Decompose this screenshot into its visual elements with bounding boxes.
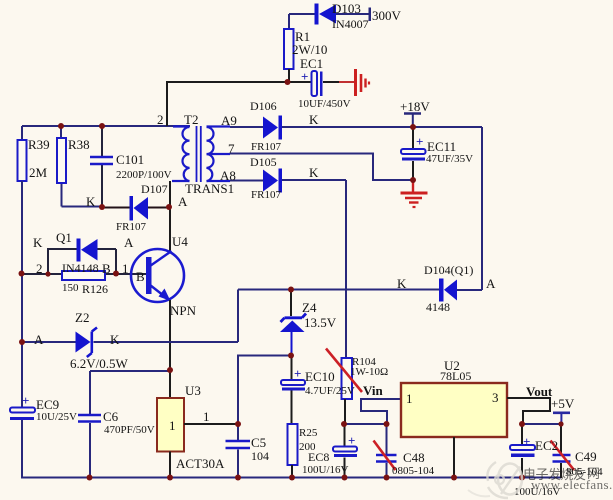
- svg-text:C49: C49: [575, 449, 597, 464]
- svg-text:K: K: [309, 112, 319, 127]
- resistor R39: [18, 140, 27, 181]
- svg-text:D105: D105: [250, 155, 277, 169]
- svg-text:+: +: [348, 433, 355, 448]
- svg-text:Vout: Vout: [526, 384, 553, 399]
- capacitor C101: [90, 157, 113, 164]
- svg-text:D107: D107: [141, 182, 168, 196]
- svg-text:300V: 300V: [372, 8, 402, 23]
- svg-text:EC8: EC8: [308, 450, 329, 464]
- wire left vertical lower: [21, 420, 23, 478]
- power +5V bar: [553, 413, 570, 424]
- wire U2 bottom pin: [453, 437, 455, 478]
- svg-text:13.5V: 13.5V: [304, 315, 337, 330]
- svg-text:R38: R38: [68, 137, 90, 152]
- svg-text:NPN: NPN: [170, 303, 197, 318]
- diode Q1 (IN4148): [77, 239, 98, 262]
- svg-text:1: 1: [122, 261, 129, 276]
- wire R104 bottom chain EC8: [344, 399, 347, 478]
- power 300V bar: [369, 8, 372, 22]
- wire U3 right pin: [184, 423, 238, 425]
- wire center tap: [230, 154, 413, 181]
- transistor U4 base bar: [146, 257, 152, 294]
- power +18V bar: [404, 114, 421, 128]
- transformer T2 core: [197, 126, 201, 182]
- resistor R38: [57, 138, 66, 183]
- capacitor EC2: [510, 434, 535, 457]
- svg-text:FR107: FR107: [251, 189, 281, 201]
- wire right-edge vertical: [481, 127, 483, 290]
- wire D107 row: [102, 207, 170, 209]
- wire Z2K up x238: [237, 290, 239, 343]
- svg-text:+: +: [22, 393, 29, 408]
- svg-text:1: 1: [406, 391, 413, 406]
- transistor U4 collector: [150, 251, 172, 266]
- wire y424 right link: [523, 423, 561, 425]
- svg-text:FR107: FR107: [251, 141, 281, 153]
- svg-text:+: +: [523, 434, 530, 449]
- diode D104: [439, 279, 457, 302]
- resistor R104: [342, 358, 353, 399]
- diode D103: [315, 4, 337, 25]
- capacitor EC10: [281, 366, 305, 391]
- wire C101 branch: [101, 126, 103, 208]
- wire C5 stubs: [237, 424, 239, 478]
- transistor U4 emitter: [150, 285, 171, 301]
- svg-text:2M: 2M: [29, 165, 48, 180]
- svg-text:Q1: Q1: [56, 230, 72, 245]
- svg-text:K: K: [33, 235, 43, 250]
- svg-text:A: A: [34, 332, 44, 347]
- svg-text:4.7UF/25V: 4.7UF/25V: [305, 385, 355, 397]
- wire left vertical upper: [21, 126, 23, 141]
- svg-text:T2: T2: [184, 112, 198, 127]
- svg-text:A: A: [486, 276, 496, 291]
- svg-text:1: 1: [169, 418, 176, 433]
- svg-text:47UF/35V: 47UF/35V: [426, 153, 473, 165]
- red slash C48: [374, 441, 396, 471]
- svg-text:+18V: +18V: [400, 99, 430, 114]
- wire A line collector: [169, 181, 171, 252]
- labels right area: [302, 263, 603, 498]
- svg-text:3: 3: [492, 390, 499, 405]
- wire EC2 stubs: [521, 424, 523, 478]
- transformer T2 secondary: [207, 127, 231, 182]
- svg-text:+5V: +5V: [551, 396, 575, 411]
- labels middle bottom: [36, 369, 355, 476]
- capacitor EC11: [401, 134, 426, 161]
- svg-text:0805-104: 0805-104: [392, 465, 435, 477]
- resistor R126: [62, 271, 105, 280]
- capacitor C49: [553, 455, 571, 462]
- IC U2 78L05: [401, 383, 507, 437]
- svg-text:470PF/50V: 470PF/50V: [104, 424, 155, 436]
- svg-text:2: 2: [157, 112, 164, 127]
- svg-text:10UF/450V: 10UF/450V: [298, 98, 351, 110]
- svg-text:2: 2: [36, 261, 43, 276]
- labels left column: [28, 137, 197, 371]
- labels transformer area: [157, 99, 473, 201]
- svg-text:U3: U3: [185, 383, 201, 398]
- red slash R104: [326, 349, 362, 393]
- svg-text:B: B: [136, 269, 145, 284]
- svg-text:6.2V/0.5W: 6.2V/0.5W: [70, 356, 129, 371]
- wire U3 bottom pin: [169, 452, 171, 479]
- wire Z4 bottom to x238: [238, 356, 291, 425]
- svg-text:K: K: [86, 194, 96, 209]
- svg-text:Z4: Z4: [302, 300, 317, 315]
- labels top area: [292, 1, 430, 114]
- svg-text:FR107: FR107: [116, 221, 146, 233]
- wire y424 link: [344, 423, 387, 425]
- wire C48 stubs: [386, 424, 388, 478]
- wire EC1 ground lead red: [339, 81, 355, 83]
- IC U3 ACT30A: [157, 398, 184, 452]
- wire D105 row: [230, 179, 346, 182]
- svg-text:ACT30A: ACT30A: [176, 456, 225, 471]
- svg-text:IN4007: IN4007: [332, 17, 369, 31]
- svg-text:B: B: [102, 261, 111, 276]
- svg-text:1: 1: [203, 409, 210, 424]
- svg-text:150: 150: [62, 282, 79, 294]
- ground red (EC11): [401, 180, 428, 207]
- svg-text:2200P/100V: 2200P/100V: [116, 169, 172, 181]
- wire top-left rail net2: [22, 125, 190, 127]
- wire base row: [22, 273, 146, 275]
- wire EC11 stubs: [412, 127, 414, 180]
- zener Z2: [76, 328, 98, 358]
- wire R25 bottom: [291, 465, 293, 478]
- svg-text:D106: D106: [250, 99, 277, 113]
- svg-text:K: K: [397, 276, 407, 291]
- svg-text:Z2: Z2: [75, 310, 89, 325]
- svg-text:TRANS1: TRANS1: [185, 181, 234, 196]
- svg-text:+: +: [416, 134, 423, 149]
- svg-text:IN4148: IN4148: [62, 261, 99, 275]
- svg-text:A: A: [178, 194, 188, 209]
- svg-text:1W-10Ω: 1W-10Ω: [350, 366, 388, 378]
- svg-text:www.elecfans.com: www.elecfans.com: [531, 477, 613, 492]
- svg-text:C101: C101: [116, 152, 144, 167]
- svg-text:104: 104: [251, 449, 269, 463]
- watermark logo: [468, 462, 522, 498]
- wire left vertical middle: [21, 181, 23, 407]
- wire Z2 row: [22, 341, 238, 343]
- wire Vout: [507, 398, 550, 424]
- svg-text:78L05: 78L05: [440, 369, 471, 383]
- wire R38 branch: [61, 126, 102, 207]
- wire Q1 branch: [48, 249, 116, 274]
- svg-text:C6: C6: [103, 409, 119, 424]
- red slash C49: [551, 441, 575, 471]
- wire mid horizontal y289: [238, 289, 439, 291]
- svg-text:4148: 4148: [426, 300, 450, 314]
- svg-text:A: A: [124, 235, 134, 250]
- svg-text:EC9: EC9: [36, 397, 59, 412]
- svg-text:R126: R126: [82, 282, 108, 296]
- wire EC1 right: [323, 81, 340, 83]
- resistor R25: [288, 424, 298, 465]
- wire R1 bottom: [288, 69, 290, 82]
- svg-text:10U/25V: 10U/25V: [36, 411, 77, 423]
- zener Z4: [280, 290, 306, 356]
- capacitor EC1: [301, 69, 323, 96]
- capacitor C48: [376, 455, 397, 462]
- svg-text:K: K: [110, 332, 120, 347]
- svg-text:D103: D103: [332, 1, 361, 16]
- svg-text:EC11: EC11: [427, 139, 456, 154]
- svg-text:100U/16V: 100U/16V: [302, 464, 349, 476]
- svg-text:2W/10: 2W/10: [292, 42, 327, 57]
- capacitor EC8: [333, 433, 357, 457]
- wire D103 right: [336, 13, 369, 15]
- capacitor C5: [226, 441, 251, 448]
- wire C49 stubs: [560, 424, 562, 478]
- svg-text:+: +: [301, 69, 308, 84]
- svg-text:U4: U4: [172, 234, 188, 249]
- diode D106: [263, 116, 282, 140]
- wire EC1 L-link: [167, 82, 311, 126]
- wire emitter down: [169, 300, 171, 370]
- wire Vin step: [361, 399, 401, 424]
- svg-text:R25: R25: [299, 427, 318, 439]
- ground chassis red (EC1): [356, 69, 370, 96]
- svg-text:EC2: EC2: [535, 438, 558, 453]
- wire EC10 chain: [291, 356, 293, 425]
- capacitor C6: [78, 415, 101, 422]
- diode D107: [130, 196, 149, 221]
- svg-text:7: 7: [228, 141, 235, 156]
- capacitor EC9: [10, 393, 35, 420]
- wire D103 left: [289, 14, 315, 29]
- svg-text:K: K: [309, 165, 319, 180]
- wire D104 anode: [457, 289, 482, 291]
- diode D105: [263, 169, 282, 193]
- svg-text:A9: A9: [221, 113, 237, 128]
- svg-text:+: +: [294, 366, 301, 381]
- svg-text:C5: C5: [251, 435, 266, 450]
- wire bottom rail: [21, 477, 561, 479]
- svg-text:EC1: EC1: [300, 56, 323, 71]
- wire C6 top link: [90, 371, 170, 478]
- wire D105 down x346: [345, 180, 347, 358]
- svg-text:R39: R39: [28, 137, 50, 152]
- wire U3 top pin: [169, 370, 171, 398]
- resistor R1: [284, 29, 294, 69]
- svg-text:Vin: Vin: [363, 383, 384, 398]
- svg-text:EC10: EC10: [305, 369, 335, 384]
- watermark text: [523, 466, 613, 492]
- svg-text:C48: C48: [403, 450, 425, 465]
- transistor U4 NPN circle: [131, 249, 184, 302]
- wire D106 row: [230, 126, 482, 128]
- svg-text:D104(Q1): D104(Q1): [424, 263, 473, 277]
- transformer T2 primary: [172, 127, 190, 182]
